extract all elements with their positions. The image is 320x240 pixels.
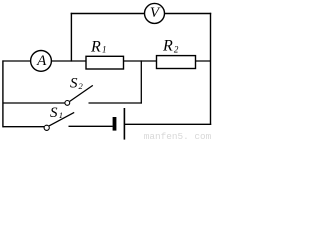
svg-text:2: 2 <box>174 44 179 54</box>
svg-text:1: 1 <box>102 45 107 55</box>
svg-text:manfen5. com: manfen5. com <box>144 131 212 142</box>
wire: S2 row right segment <box>89 102 142 104</box>
svg-text:1: 1 <box>59 110 63 120</box>
wire: bottom row from S1 to battery <box>69 125 113 127</box>
svg-text:S: S <box>50 105 58 121</box>
ammeter A <box>31 51 52 72</box>
wire: middle row horizontal <box>3 60 211 62</box>
wire: bottom row from battery to right rail <box>124 123 211 125</box>
resistor R1 <box>86 38 124 69</box>
wire: junction vertical between R1 and R2 down to S2 row <box>140 60 142 103</box>
wire: voltmeter branch left vertical <box>70 13 72 62</box>
svg-text:R: R <box>162 38 173 55</box>
wire: bottom row left segment to S1 <box>3 126 45 128</box>
voltmeter V <box>145 3 165 23</box>
wire: left vertical rail <box>2 60 4 127</box>
svg-text:A: A <box>36 53 47 69</box>
wire: right vertical rail <box>210 13 212 125</box>
battery: short thick negative plate <box>113 117 117 131</box>
wire: S2 row left segment <box>3 102 66 104</box>
switch S2 <box>65 76 93 106</box>
svg-text:S: S <box>70 76 78 92</box>
switch S1 <box>44 105 74 131</box>
svg-text:R: R <box>90 38 101 55</box>
wire: top horizontal (voltmeter branch) <box>71 13 212 15</box>
resistor R2 <box>157 38 196 69</box>
battery: long thin positive plate <box>123 108 125 140</box>
